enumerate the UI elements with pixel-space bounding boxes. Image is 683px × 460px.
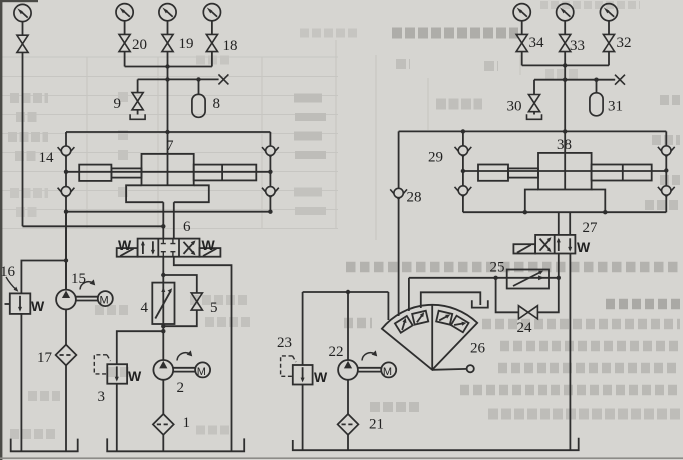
motor 15 <box>98 291 113 306</box>
svg-text:23: 23 <box>277 335 292 351</box>
shutoff valve 19 <box>162 34 173 51</box>
svg-text:21: 21 <box>369 417 384 433</box>
directional valve 27: left box crossed arrows <box>540 239 551 251</box>
wire <box>124 21 126 34</box>
wire <box>608 52 610 66</box>
junction <box>196 77 200 81</box>
support ram 7: pedestal <box>126 185 209 202</box>
bleed-through table grid (decorative, faint) <box>2 40 520 240</box>
wire <box>211 52 213 67</box>
support ram 7: right cylinder <box>194 165 257 181</box>
rotary selector 26: sector <box>382 305 477 370</box>
wire filter 21 to tank <box>347 435 349 450</box>
wire to relief valve 23 <box>302 292 304 365</box>
svg-text:M: M <box>100 295 109 307</box>
junction <box>603 210 607 214</box>
filter 1 <box>153 414 174 435</box>
filter 21 <box>338 414 359 435</box>
support ram 7: center cylinder <box>142 154 194 185</box>
wire relief 3 to tank <box>116 384 118 452</box>
check valve (29 lower) <box>455 186 472 197</box>
rotary selector 26: center line <box>431 305 433 370</box>
check valve (lower right 38) <box>658 186 675 197</box>
wire <box>521 52 523 66</box>
relief valve 16: body <box>10 293 31 314</box>
rotary selector 26: index pin <box>432 368 467 371</box>
wire right check column <box>269 132 271 212</box>
junction <box>563 129 567 133</box>
shutoff valve 33 <box>560 34 571 51</box>
directional valve 6: left solenoid box <box>117 248 138 257</box>
svg-text:W: W <box>577 239 591 255</box>
check valve (upper right 38) <box>658 146 675 157</box>
support ram 7: left end box <box>79 165 111 181</box>
wire manifold into fan left <box>387 292 389 320</box>
support ram 38: left end box <box>478 165 508 181</box>
wire flow-control main line <box>409 277 559 279</box>
relief valve 23: body <box>293 365 313 385</box>
wire <box>521 21 523 34</box>
rotary selector 26: pocket 2 <box>412 311 428 325</box>
svg-text:17: 17 <box>37 350 53 366</box>
tank (under valve 9) <box>130 114 145 119</box>
check valve 28 <box>390 188 407 199</box>
svg-text:31: 31 <box>608 99 623 115</box>
wire block bottom trunk <box>66 211 270 213</box>
directional valve 6: position dividers <box>157 239 159 257</box>
wire branch to valve 5 <box>163 275 197 293</box>
relief valve 3: body <box>107 364 127 384</box>
junction (valve 5 branch rejoin) <box>161 324 165 328</box>
wire block top line <box>66 131 270 133</box>
wire valve 27 P-port <box>558 254 560 278</box>
wire <box>124 52 126 67</box>
svg-text:2: 2 <box>177 380 185 396</box>
pressure gauge 19 column <box>159 4 176 21</box>
check valve (lower right) <box>262 187 279 198</box>
junction <box>165 130 169 134</box>
wire test header (right) <box>534 79 615 81</box>
svg-text:16: 16 <box>0 264 16 280</box>
accumulator 8 <box>192 94 205 117</box>
support ram 38: left rod neck <box>508 168 538 177</box>
wire to relief valve 16 <box>21 261 66 294</box>
wire pocket-3 line to local tank <box>421 292 481 308</box>
wire pump 22 suction <box>347 380 349 414</box>
shutoff valve (below far-left gauge) <box>17 35 28 52</box>
wire valve 6 T-port return <box>174 257 232 452</box>
svg-text:W: W <box>118 237 132 253</box>
wire left check column (38) <box>462 131 464 212</box>
wire valve 9 to tank <box>137 110 139 115</box>
directional valve 6: center box closed ports <box>161 239 166 243</box>
plug X (right header end) <box>615 75 625 85</box>
relief valve 16: left stub <box>5 303 10 305</box>
svg-text:38: 38 <box>557 137 572 153</box>
pressure gauge (far left) <box>14 4 31 21</box>
support ram 7: center divider <box>167 132 169 185</box>
scan page left edge <box>0 0 2 460</box>
check valve (29 upper) <box>455 146 472 157</box>
junction <box>664 168 668 172</box>
wire pump 15 suction <box>65 309 67 344</box>
wire gauge manifold <box>125 66 212 68</box>
wire valve 6 P-port down <box>162 257 164 361</box>
junction (gauge line meets A-feed) <box>161 224 165 228</box>
junction + stub to ram <box>64 170 68 174</box>
tank (left group) <box>11 439 78 452</box>
shutoff valve 32 <box>603 34 614 51</box>
wire <box>167 21 169 34</box>
wire valve 5 return <box>163 310 197 326</box>
drive shaft pump 15 <box>76 297 98 301</box>
wire <box>211 21 213 34</box>
drive shaft pump 2 <box>173 368 195 372</box>
wire block 38 bottom trunk <box>463 211 666 213</box>
svg-text:9: 9 <box>114 96 122 112</box>
junction (relief 16 tee) <box>64 258 68 262</box>
flow control valve 4 <box>152 283 174 324</box>
wire gauge manifold (right) <box>522 64 609 66</box>
wire valve 27 T-port return <box>569 254 571 451</box>
svg-text:M: M <box>383 366 392 378</box>
wire pump 2 suction <box>162 380 164 414</box>
scan page bottom rule <box>0 457 683 459</box>
relief valve 3: pilot dashes <box>94 355 110 374</box>
svg-text:6: 6 <box>183 219 191 235</box>
svg-text:22: 22 <box>329 344 344 360</box>
svg-text:3: 3 <box>98 389 106 405</box>
junction <box>493 276 497 280</box>
rotation arrow (pump 2) <box>177 350 192 360</box>
svg-text:W: W <box>202 237 216 253</box>
svg-text:20: 20 <box>132 37 147 53</box>
motor 22 <box>381 362 396 377</box>
svg-text:W: W <box>128 368 142 384</box>
svg-text:25: 25 <box>490 260 505 276</box>
junction <box>461 129 465 133</box>
pressure gauge 34 column <box>513 4 530 21</box>
label 16 leader <box>6 277 17 290</box>
support ram 7: left rod neck <box>111 168 141 177</box>
pump 22 <box>338 360 358 380</box>
svg-text:14: 14 <box>39 150 55 166</box>
svg-text:29: 29 <box>428 150 443 166</box>
wire right check column (38) <box>665 131 667 212</box>
svg-text:M: M <box>197 366 206 378</box>
rotary selector 26: pocket 1 <box>395 316 413 333</box>
shutoff valve 20 <box>119 34 130 51</box>
junction <box>268 210 272 214</box>
pump 2 <box>153 360 173 380</box>
support ram 7: center rod line <box>66 171 270 173</box>
junction <box>346 290 350 294</box>
wire filter 17 to tank <box>65 365 67 451</box>
support ram 38: right cylinder <box>592 165 652 181</box>
svg-text:24: 24 <box>517 320 533 336</box>
drive shaft pump 22 <box>358 368 381 372</box>
wire pocket-2 line to flow control <box>408 278 410 311</box>
tank trunk (right group) <box>293 438 579 451</box>
plug X (left header end) <box>218 74 228 84</box>
wire drop to accumulator 8 <box>198 79 200 94</box>
svg-text:19: 19 <box>179 36 194 52</box>
wire drop to valve 9 <box>137 79 139 92</box>
support ram 38: pedestal <box>525 190 606 213</box>
svg-text:30: 30 <box>507 99 522 115</box>
junction <box>165 77 169 81</box>
rotation arrow (pump 15) <box>80 279 95 289</box>
svg-text:27: 27 <box>583 220 599 236</box>
support ram 38: center rod line <box>463 170 666 172</box>
svg-text:8: 8 <box>213 96 221 112</box>
wire left check column <box>65 132 67 290</box>
svg-text:7: 7 <box>166 138 174 154</box>
unloading valve 9 <box>132 93 143 110</box>
flow control valve 25 <box>507 270 549 289</box>
junction <box>594 78 598 82</box>
wire block 38 top line <box>399 130 667 132</box>
shutoff valve 5 <box>191 293 202 310</box>
check valve (14 lower left) <box>58 187 75 198</box>
junction <box>523 210 527 214</box>
wire valve 30 to tank <box>533 112 535 115</box>
svg-text:15: 15 <box>71 271 86 287</box>
wire drop to accumulator 31 <box>596 80 598 93</box>
shutoff valve 18 <box>206 34 217 51</box>
wire filter 1 to tank <box>162 435 164 452</box>
junction <box>64 210 68 214</box>
wire ram B-feed down to valve 6 <box>173 202 175 238</box>
junction <box>165 64 169 68</box>
rotary selector 26: pocket 4 <box>451 316 469 333</box>
directional valve 27: main body <box>535 235 575 254</box>
junction (branch to valve 5) <box>161 273 165 277</box>
wire pump 22 manifold <box>303 291 389 293</box>
tank (center group) <box>107 438 244 451</box>
pump 15 <box>56 290 76 310</box>
check valve (upper right) <box>262 146 279 157</box>
pressure gauge 20 column <box>116 4 133 21</box>
wire gauge to shutoff <box>22 22 24 35</box>
rotation arrow (pump 22) <box>362 350 377 360</box>
junction <box>461 169 465 173</box>
support ram 38: center divider <box>564 131 566 189</box>
support ram 7: right piston divider <box>221 165 223 181</box>
scan page top-left edge mark <box>0 0 38 2</box>
junction <box>557 276 561 280</box>
wire ram 38 B-feed to valve 27 <box>569 212 571 235</box>
wire manifold drop <box>167 67 169 133</box>
svg-text:32: 32 <box>617 35 632 51</box>
relief valve 23: pilot dashes <box>281 356 296 376</box>
bypass valve 24 <box>518 306 537 319</box>
motor 2 <box>195 362 210 377</box>
tank (fan drain) <box>472 300 488 307</box>
shutoff valve 34 <box>516 34 527 51</box>
wire ram 38 A-feed to valve 27 <box>558 212 560 235</box>
wire manifold drop <box>564 65 566 131</box>
directional valve 27: divider <box>554 235 556 254</box>
junction <box>563 63 567 67</box>
check valve (14 upper left) <box>58 146 75 157</box>
filter 17 <box>56 345 77 366</box>
svg-text:34: 34 <box>529 35 545 51</box>
bypass check valve 24 loop <box>496 278 559 313</box>
junction <box>268 170 272 174</box>
directional valve 6: left box parallel arrows <box>142 242 144 254</box>
unloading valve 30 <box>528 95 539 112</box>
directional valve 6: right box crossed arrows <box>184 242 195 254</box>
wire pump 22 pressure line <box>347 292 349 360</box>
wire test header <box>138 78 219 80</box>
svg-text:W: W <box>31 298 45 314</box>
svg-text:18: 18 <box>223 38 238 54</box>
svg-text:1: 1 <box>183 415 191 431</box>
wire relief 23 to tank <box>302 385 304 451</box>
junction <box>563 78 567 82</box>
wire drop to valve 30 <box>533 80 535 95</box>
pressure gauge 32 column <box>600 4 617 21</box>
svg-text:26: 26 <box>470 341 486 357</box>
wire <box>608 21 610 34</box>
wire check 28 drop line <box>398 131 400 316</box>
tank (under valve 30) <box>527 114 542 119</box>
wire <box>564 21 566 34</box>
rotary selector 26: pocket 3 <box>436 311 452 325</box>
wire pump 15 column <box>65 212 67 290</box>
svg-text:28: 28 <box>407 190 422 206</box>
support ram 38: center cylinder <box>538 153 592 190</box>
directional valve 27: solenoid box <box>513 244 535 253</box>
wire to relief valve 3 <box>117 331 164 364</box>
wire left gauge line down <box>22 52 24 226</box>
wire ram A-feed down to valve 6 <box>162 202 164 238</box>
svg-text:5: 5 <box>210 300 218 316</box>
junction (relief 3 tee) <box>161 329 165 333</box>
directional valve 6: right solenoid box <box>200 248 221 257</box>
accumulator 31 <box>590 93 603 116</box>
support ram 38: right piston divider <box>622 165 624 181</box>
directional valve 6: main body <box>138 239 200 257</box>
svg-text:W: W <box>314 369 328 385</box>
pressure gauge 33 column <box>557 4 574 21</box>
svg-text:4: 4 <box>141 300 149 316</box>
wire <box>167 52 169 67</box>
wire <box>564 52 566 66</box>
directional valve 27: right box parallel arrows <box>558 239 560 251</box>
svg-text:33: 33 <box>570 38 585 54</box>
pressure gauge 18 column <box>203 4 220 21</box>
wire gauge line to valve 6 A-port <box>23 225 164 227</box>
wire relief 16 to tank <box>20 314 22 451</box>
